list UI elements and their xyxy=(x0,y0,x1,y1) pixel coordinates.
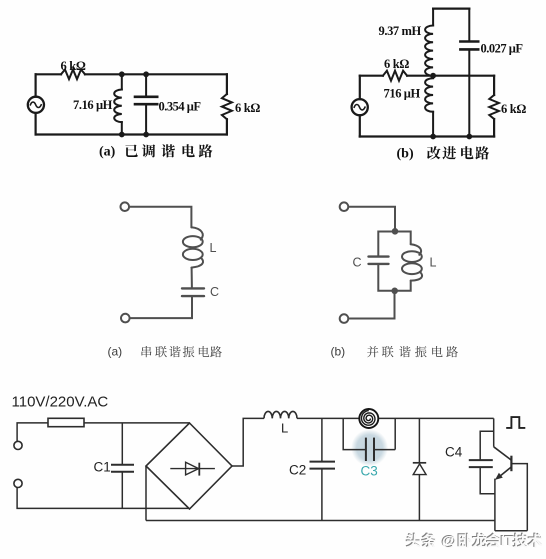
svg-text:C4: C4 xyxy=(445,445,463,460)
square wave symbol xyxy=(506,417,525,428)
diode freewheel xyxy=(418,418,420,462)
wire fuse to bridge top xyxy=(84,422,190,424)
svg-text:C1: C1 xyxy=(94,460,111,475)
wire bottom (b) xyxy=(360,135,494,137)
emitter arrowhead xyxy=(495,473,503,480)
wire left vertical upper (a) xyxy=(34,74,36,96)
svg-text:L: L xyxy=(210,241,217,255)
wire AC hot top xyxy=(17,423,48,441)
svg-text:C: C xyxy=(353,256,362,270)
wire collector drop xyxy=(493,418,495,446)
svg-text:C3: C3 xyxy=(361,464,378,479)
wire middle (b) right xyxy=(407,75,494,77)
node dots circuit (a) xyxy=(119,71,149,137)
svg-text:0.354 μF: 0.354 μF xyxy=(159,100,202,114)
svg-text:716 μH: 716 μH xyxy=(384,87,421,101)
svg-text:L: L xyxy=(281,421,288,436)
svg-text:@: @ xyxy=(442,533,457,550)
capacitor C4 loop xyxy=(480,431,494,460)
branch L (parallel) xyxy=(395,232,411,245)
node dots circuit (b) xyxy=(430,73,472,140)
svg-text:6 kΩ: 6 kΩ xyxy=(384,57,409,71)
terminal AC top xyxy=(14,441,22,449)
capacitor C3 loop xyxy=(343,418,366,449)
wire top (series) xyxy=(129,207,191,228)
svg-text:C: C xyxy=(210,285,219,299)
svg-text:9.37 mH: 9.37 mH xyxy=(379,24,422,38)
wire AC neutral xyxy=(17,488,189,509)
resistor 6k-ohm load (b) xyxy=(493,76,495,95)
wire bottom (series) xyxy=(130,297,192,319)
svg-text:6 kΩ: 6 kΩ xyxy=(235,101,260,115)
wire top (a) right of resistor xyxy=(85,73,227,75)
capacitor C2 xyxy=(321,418,323,461)
wire emitter xyxy=(494,479,496,531)
spiral annotation on C3 xyxy=(359,408,379,428)
svg-text:0.027 μF: 0.027 μF xyxy=(481,42,524,56)
svg-text:(b): (b) xyxy=(397,147,414,162)
svg-text:110V/220V.AC: 110V/220V.AC xyxy=(12,394,109,411)
wire ground rail xyxy=(146,466,495,521)
capacitor C1 xyxy=(121,423,123,465)
fuse xyxy=(48,418,84,426)
wire top (parallel) xyxy=(349,207,396,231)
wire base return xyxy=(511,464,527,531)
resistor 6k-ohm series (b) xyxy=(383,71,407,81)
inductor 716uH xyxy=(425,78,433,112)
watermark toutiao xyxy=(406,532,543,550)
svg-text:6 kΩ: 6 kΩ xyxy=(501,102,526,116)
node dots (parallel) xyxy=(391,228,398,294)
AC source (b) xyxy=(352,99,368,115)
inductor L filter xyxy=(264,411,297,418)
highlight glow behind C3 xyxy=(351,429,388,466)
svg-text:7.16 μH: 7.16 μH xyxy=(73,98,113,112)
bridge rectifier diamond xyxy=(146,423,232,509)
wire bottom (a) xyxy=(36,133,227,135)
terminal bottom (parallel) xyxy=(340,314,349,323)
svg-text:(b): (b) xyxy=(331,345,346,359)
wire main positive rail xyxy=(297,417,494,419)
capacitor 0.027uF branch xyxy=(468,9,470,42)
terminal top (parallel) xyxy=(340,202,349,211)
wire middle (b) left xyxy=(360,75,383,77)
inductor 9.37mH xyxy=(432,9,434,26)
svg-text:(a): (a) xyxy=(108,345,123,359)
svg-text:C2: C2 xyxy=(289,463,306,478)
svg-text:6 kΩ: 6 kΩ xyxy=(61,59,86,73)
svg-text:L: L xyxy=(430,256,437,270)
wire bottom (parallel) xyxy=(349,291,395,319)
inductor L (series rings) xyxy=(191,227,202,239)
capacitor 0.354uF xyxy=(145,74,147,96)
wire top (b) xyxy=(433,8,469,10)
wire left vertical lower (a) xyxy=(34,113,36,135)
terminal AC bottom xyxy=(14,479,22,487)
terminal bottom (series) xyxy=(121,314,130,323)
branch C (parallel) xyxy=(378,232,395,257)
wire bridge plus output xyxy=(232,418,264,466)
inductor 7.16uH vertical xyxy=(121,74,123,89)
svg-text:(a): (a) xyxy=(99,145,116,160)
wire top-left loop top xyxy=(36,73,61,75)
wire left vertical (b) xyxy=(359,76,361,99)
AC source (a) xyxy=(28,97,44,113)
wire base-emitter bottom loop xyxy=(495,530,527,532)
bridge diode symbol xyxy=(170,468,215,470)
transistor Q1 xyxy=(494,447,512,460)
capacitor C (series) xyxy=(182,287,204,289)
resistor 6k-ohm load (a) xyxy=(226,74,228,94)
svg-text:IT: IT xyxy=(501,533,514,550)
terminal top (series) xyxy=(121,202,130,211)
resistor 6k-ohm series (a) xyxy=(61,70,85,80)
